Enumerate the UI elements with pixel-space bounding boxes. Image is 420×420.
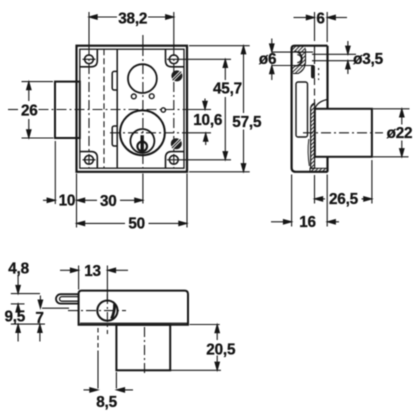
svg-text:50: 50 (128, 216, 145, 233)
svg-text:ø3,5: ø3,5 (353, 51, 384, 68)
svg-text:6: 6 (316, 10, 324, 27)
svg-text:57,5: 57,5 (232, 114, 262, 131)
svg-text:4,8: 4,8 (8, 261, 29, 278)
svg-text:7: 7 (35, 310, 43, 327)
svg-text:30: 30 (100, 193, 117, 210)
svg-text:26,5: 26,5 (329, 191, 359, 208)
svg-text:9,5: 9,5 (4, 309, 25, 326)
svg-text:26: 26 (21, 103, 38, 120)
svg-text:ø6: ø6 (259, 51, 276, 68)
svg-text:13: 13 (84, 263, 101, 280)
svg-text:20,5: 20,5 (206, 341, 236, 358)
svg-text:8,5: 8,5 (96, 394, 117, 411)
svg-text:ø22: ø22 (387, 125, 413, 142)
svg-text:10,6: 10,6 (193, 112, 222, 129)
svg-text:38,2: 38,2 (118, 11, 147, 28)
svg-text:45,7: 45,7 (213, 81, 242, 98)
svg-text:16: 16 (299, 214, 316, 231)
svg-text:10: 10 (59, 193, 76, 210)
